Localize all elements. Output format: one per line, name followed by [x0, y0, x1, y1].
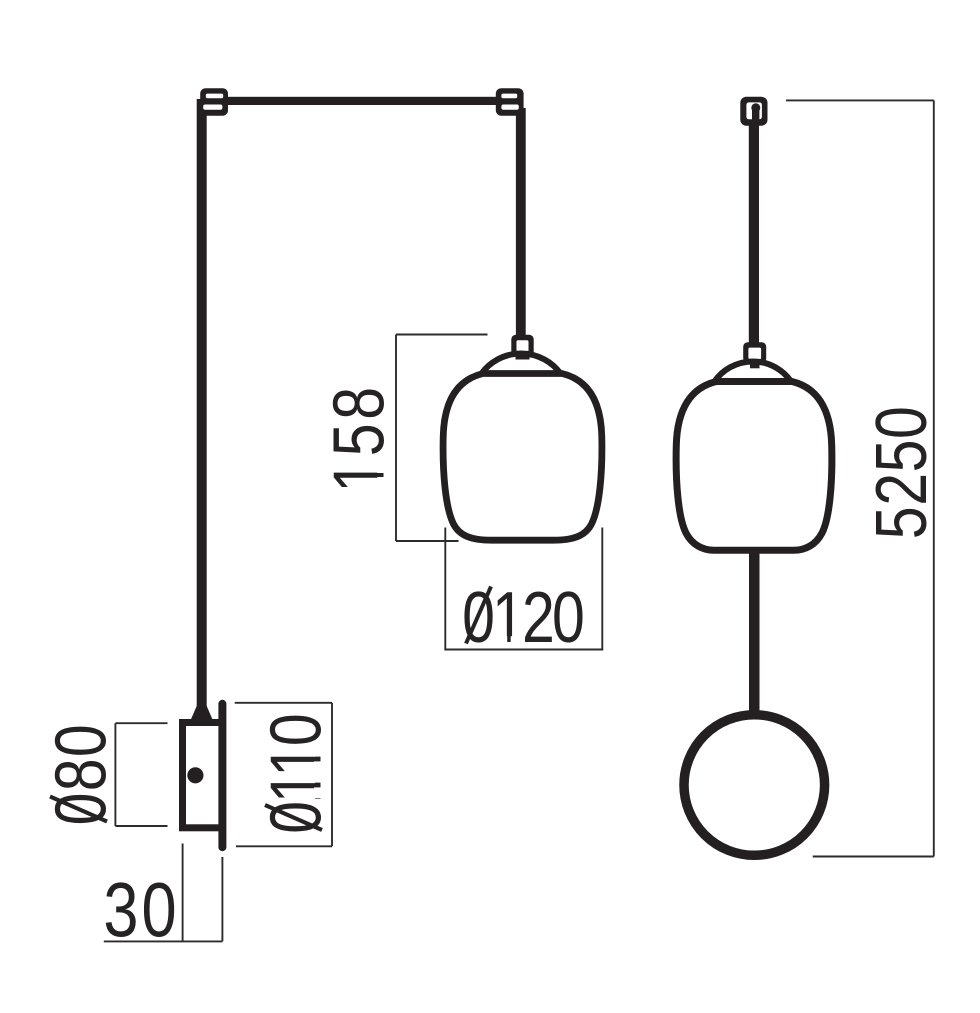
glass shade dome right figure: [715, 361, 792, 381]
glass shade barrel right figure: [676, 382, 832, 551]
dimension label D120: [462, 576, 583, 657]
glass ball diffuser: [684, 715, 825, 856]
svg-text:5250: 5250: [860, 406, 941, 540]
svg-text:0120: 0120: [462, 576, 583, 657]
dimension label D110: [255, 715, 336, 834]
dimension label 158: [318, 383, 399, 492]
svg-text:158: 158: [318, 383, 399, 492]
wire: top horizontal cable run: [203, 97, 523, 105]
glass shade barrel left figure: [443, 374, 602, 541]
wire: upper cable right figure: [749, 120, 759, 343]
dimension D80 extension lines: [115, 723, 167, 826]
dimension 158 extension lines: [396, 335, 488, 542]
wire: pendant drop cable of left figure: [516, 108, 526, 340]
dimension 30 extension lines: [104, 844, 223, 942]
dimension 5250 extension lines: [786, 100, 934, 856]
svg-text:0110: 0110: [255, 715, 336, 834]
ceiling hook right slot lower: [501, 105, 518, 110]
wall plate: [218, 704, 226, 847]
dimension label D80: [40, 723, 121, 825]
wall bracket cable cone: [190, 706, 213, 722]
ceiling hook right body: [496, 88, 524, 116]
lamp socket right figure: [743, 342, 766, 363]
wire: left wall cable vertical run: [197, 99, 207, 708]
ceiling hook right slot upper: [501, 94, 517, 99]
ceiling hook left slot lower: [203, 105, 222, 110]
ceiling hook left body: [200, 88, 228, 116]
dimension label 5250: [860, 406, 941, 540]
wall bracket box: [183, 723, 223, 828]
dimension label 30: [103, 867, 179, 953]
wire: lower cable right figure: [749, 552, 760, 714]
dimension D120 extension lines: [444, 528, 603, 650]
ceiling hook left slot upper: [206, 94, 223, 99]
lamp socket left figure: [511, 335, 533, 357]
glass shade dome left figure: [482, 353, 561, 373]
ceiling mount bracket right figure: [740, 97, 767, 126]
dimension D110 extension lines: [235, 703, 332, 847]
screw dot: [187, 767, 203, 783]
svg-text:30: 30: [103, 867, 179, 953]
